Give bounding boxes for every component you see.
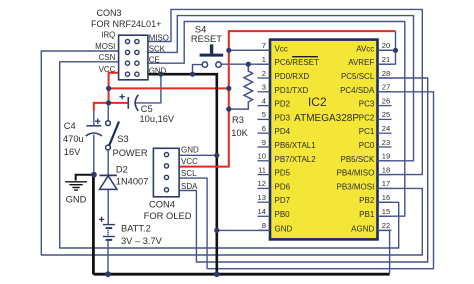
wire MOSI net: CON3 MOSI to PB3/MOSI pin17 [41,51,422,255]
svg-text:PC6/RESET: PC6/RESET [275,58,320,67]
wire AVcc pin20 junction [378,49,396,51]
wire C4 positive lead [93,110,95,126]
svg-text:PD3: PD3 [275,113,291,122]
svg-text:SCL: SCL [181,169,197,178]
svg-text:CON4: CON4 [149,199,175,210]
svg-text:PD4: PD4 [275,127,291,136]
svg-text:16: 16 [382,193,390,202]
svg-text:AVcc: AVcc [356,44,374,53]
wire battery negative to ground bus [107,240,109,274]
svg-text:9: 9 [262,138,266,147]
CON3 pin circles [125,39,139,76]
capacitor C4 470u electrolytic [86,119,102,137]
svg-text:S3: S3 [117,134,128,144]
resistor R3 10K [229,64,253,109]
svg-text:GND: GND [275,224,293,233]
wire Vcc pin7 to +V rail [229,49,270,51]
svg-text:R3: R3 [232,115,244,125]
svg-text:21: 21 [382,55,390,64]
IC2 left pin numbers [258,41,266,230]
IC2 right pin labels [337,44,375,233]
svg-text:FOR OLED: FOR OLED [144,210,192,221]
wire ground: CON3 GND rail right and down [148,74,217,274]
junction C4/C5/S3 node [106,100,111,105]
svg-text:10u,16V: 10u,16V [140,114,175,124]
battery BATT.2 [99,217,115,240]
junction battery negative on ground bus [105,271,111,277]
svg-text:1N4007: 1N4007 [116,176,149,186]
junction C4 negative / earth ground node [91,172,97,178]
svg-text:FOR NRF24L01+: FOR NRF24L01+ [91,19,161,29]
svg-text:20: 20 [382,41,390,50]
svg-text:SDA: SDA [181,182,198,191]
svg-text:PD2: PD2 [275,100,291,109]
svg-text:PC5/SCL: PC5/SCL [341,72,375,81]
junction C5 negative on ground wire [158,72,163,77]
svg-text:C4: C4 [64,121,76,131]
junction AVcc pin20 [393,48,398,53]
svg-text:IC2: IC2 [308,95,327,109]
connector CON4 labels [181,145,199,190]
svg-text:11: 11 [258,165,266,174]
svg-text:BATT.2: BATT.2 [121,224,151,234]
wire CE net: CON3 CE to PB1 pin15 [148,22,405,217]
IC2 left pin labels [275,44,320,233]
svg-text:VCC: VCC [181,157,198,166]
svg-text:PD1/TXD: PD1/TXD [275,86,309,95]
IC2 pin stubs left [258,50,271,230]
wire MISO net: CON3 MISO to PB4/MISO pin18 [148,9,423,174]
wire C4 negative lead to ground node [93,135,95,175]
svg-text:AGND: AGND [351,224,374,233]
svg-text:VCC: VCC [99,65,116,74]
wire red to C5 positive [109,102,129,104]
svg-text:CE: CE [149,56,160,65]
junction Vcc pin7 on +V line [226,48,231,53]
wire CON4 SDA to PC5/SCL pin28 [179,78,428,262]
junction +V rail on +V vertical [226,86,231,91]
junction +V rail / CON3 VCC [106,86,111,91]
connector CON3 body [119,35,148,80]
wire ground elbow to earth symbol [76,175,94,181]
svg-text:PD0/RXD: PD0/RXD [275,72,310,81]
svg-text:1: 1 [262,55,266,64]
svg-text:PD5: PD5 [275,169,291,178]
svg-text:AVREF: AVREF [348,58,374,67]
svg-text:PB3/MOSI: PB3/MOSI [337,182,375,191]
svg-text:PC2: PC2 [359,113,375,122]
svg-text:SCK: SCK [149,45,166,54]
wire red +V rail horizontal [109,87,229,89]
wire power junction to S3 [107,104,109,121]
svg-text:15: 15 [382,207,390,216]
wire CON4 GND to ground rail [179,154,217,156]
svg-text:MOSI: MOSI [95,42,115,51]
junction S4 contact on ground wire [190,72,195,77]
svg-text:PB1: PB1 [359,210,375,219]
wire red to C4 positive [94,103,109,111]
svg-text:RESET: RESET [191,34,222,44]
svg-text:19: 19 [382,152,390,161]
switch S3 POWER [106,121,119,150]
wire ground left vertical [92,175,95,275]
wire AGND pin22 to ground bus [378,230,390,273]
wire red +V: CON3 VCC down to rail [109,73,119,103]
svg-text:ATMEGA328P: ATMEGA328P [294,113,359,124]
svg-text:26: 26 [382,96,390,105]
svg-text:22: 22 [382,221,390,230]
wire GND pin8 to ground rail [217,229,270,231]
junction R3 on +V vertical [226,107,231,112]
IC U-IC2 ATMEGA328P body [270,40,378,240]
junction GND pin8 on ground vertical [214,228,219,233]
svg-text:PC0: PC0 [359,141,375,150]
svg-text:MISO: MISO [149,34,169,43]
svg-text:18: 18 [382,165,390,174]
svg-text:PB6/XTAL1: PB6/XTAL1 [275,141,317,150]
svg-text:5: 5 [262,110,266,119]
svg-text:PB4/MISO: PB4/MISO [337,169,375,178]
wire reset node: S4 to PC6/RESET pin1 [193,65,203,75]
svg-text:8: 8 [262,221,266,230]
svg-text:POWER: POWER [113,148,148,158]
svg-text:PC3: PC3 [359,100,375,109]
svg-text:C5: C5 [141,104,153,114]
svg-text:28: 28 [382,69,390,78]
svg-text:7: 7 [262,41,266,50]
svg-text:3: 3 [262,83,266,92]
switch S4 RESET pushbutton [200,44,224,67]
svg-text:Vcc: Vcc [275,44,288,53]
svg-text:12: 12 [258,179,266,188]
svg-text:IRQ: IRQ [101,30,115,39]
svg-text:PB2: PB2 [359,196,375,205]
wire S4 to pin1 [221,63,270,65]
svg-text:10K: 10K [231,128,248,138]
junction ground vertical on ground bus [214,271,220,277]
svg-text:3V – 3.7V: 3V – 3.7V [121,236,163,246]
junction CON4 GND on ground vertical [214,153,219,158]
junction R3 top on reset line [246,62,251,67]
svg-text:6: 6 [262,124,266,133]
svg-text:PB7/XTAL2: PB7/XTAL2 [275,155,317,164]
pin1 RESET overline [292,56,318,58]
svg-text:CON3: CON3 [96,8,121,18]
svg-text:GND: GND [149,66,167,75]
svg-text:16V: 16V [64,147,81,157]
diode D2 1N4007 [100,175,117,189]
IC2 pin stubs right [378,50,392,230]
svg-text:S4: S4 [195,24,206,34]
wire D2 cathode to battery [107,189,109,224]
svg-text:PB5/SCK: PB5/SCK [341,155,375,164]
svg-text:GND: GND [66,194,87,205]
svg-text:2: 2 [262,69,266,78]
wire CSN net: CON3 CSN to PB2 pin16 [60,62,399,248]
wire CON4 SCL to PC4/SDA pin27 [179,92,433,269]
connector CON4 body [153,148,179,197]
svg-text:D2: D2 [116,164,128,174]
wire red +V main: CON4 VCC up and over to AVcc [179,31,395,167]
svg-text:27: 27 [382,83,390,92]
IC2 right pin numbers [382,41,390,230]
svg-text:24: 24 [382,124,390,133]
svg-text:PD6: PD6 [275,182,291,191]
CON3 pin labels [95,30,169,75]
svg-text:25: 25 [382,110,390,119]
wire ground bus bottom [93,273,389,276]
wire S3 to D2 anode [107,150,109,176]
svg-text:13: 13 [258,193,266,202]
wire SCK net: CON3 SCK to PB5/SCK pin19 [148,16,414,161]
svg-text:PB0: PB0 [275,210,291,219]
wire AVREF pin21 to +V [378,31,396,64]
svg-text:17: 17 [382,179,390,188]
svg-text:PC1: PC1 [359,127,375,136]
svg-text:PC4/SDA: PC4/SDA [340,86,375,95]
ground earth symbol [65,182,87,190]
capacitor C5 10u electrolytic [119,94,138,111]
svg-text:10: 10 [258,152,266,161]
svg-text:470u: 470u [63,134,84,144]
svg-text:14: 14 [258,207,266,216]
svg-text:GND: GND [181,145,199,154]
svg-text:23: 23 [382,138,390,147]
svg-text:PD7: PD7 [275,196,291,205]
wire C5 negative to ground [136,74,161,103]
svg-text:4: 4 [262,96,266,105]
svg-text:CSN: CSN [99,53,116,62]
